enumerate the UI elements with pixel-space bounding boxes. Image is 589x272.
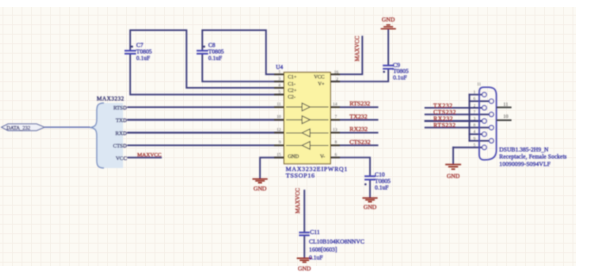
svg-text:11: 11 <box>277 101 281 106</box>
svg-text:0.1uF: 0.1uF <box>136 56 151 62</box>
svg-text:C8: C8 <box>208 43 215 49</box>
svg-text:T0805: T0805 <box>208 50 224 56</box>
svg-text:GND: GND <box>298 266 312 272</box>
svg-text:0.1uF: 0.1uF <box>393 76 408 82</box>
svg-text:V+: V+ <box>318 82 325 88</box>
svg-text:C1+: C1+ <box>288 74 297 80</box>
svg-text:RTS232: RTS232 <box>433 123 456 129</box>
svg-text:V-: V- <box>320 154 325 160</box>
svg-text:1: 1 <box>279 69 281 74</box>
svg-text:11: 11 <box>503 103 508 108</box>
svg-text:C2+: C2+ <box>288 88 297 94</box>
svg-text:CL10B104KO8NNVC: CL10B104KO8NNVC <box>309 239 364 245</box>
svg-text:C11: C11 <box>310 230 320 236</box>
svg-text:CTSD: CTSD <box>113 144 127 150</box>
svg-text:GND: GND <box>382 18 396 24</box>
svg-text:7: 7 <box>473 109 475 114</box>
svg-text:1: 1 <box>473 90 475 95</box>
svg-text:0.1uF: 0.1uF <box>208 56 223 62</box>
svg-text:11: 11 <box>477 81 481 86</box>
svg-text:TX232: TX232 <box>433 103 453 109</box>
svg-text:VCC: VCC <box>314 74 325 80</box>
svg-text:4: 4 <box>279 83 281 88</box>
svg-text:TSSOP16: TSSOP16 <box>286 173 315 180</box>
svg-text:T0805: T0805 <box>136 50 152 56</box>
svg-text:RX232: RX232 <box>433 117 453 123</box>
svg-text:C7: C7 <box>136 43 143 49</box>
svg-text:8: 8 <box>473 123 475 128</box>
svg-text:DATA_232: DATA_232 <box>7 125 31 131</box>
svg-text:9: 9 <box>473 136 475 141</box>
svg-text:TXD: TXD <box>116 118 127 124</box>
svg-text:C9: C9 <box>393 63 400 69</box>
svg-text:Receptacle, Female Sockets: Receptacle, Female Sockets <box>499 155 567 161</box>
svg-text:C10: C10 <box>375 173 385 179</box>
svg-text:0.1uF: 0.1uF <box>309 255 324 261</box>
svg-text:0.1uF: 0.1uF <box>375 185 390 191</box>
svg-text:2: 2 <box>473 103 475 108</box>
svg-text:GND: GND <box>447 174 461 180</box>
svg-text:TX232: TX232 <box>350 113 368 120</box>
svg-text:CTS232: CTS232 <box>433 110 456 116</box>
svg-text:RXD: RXD <box>115 131 126 137</box>
svg-text:T0805: T0805 <box>375 179 391 185</box>
svg-text:MAX3232: MAX3232 <box>97 96 125 102</box>
svg-text:2: 2 <box>336 77 338 82</box>
svg-text:C2-: C2- <box>288 95 296 101</box>
svg-text:6: 6 <box>473 96 475 101</box>
svg-text:RX232: RX232 <box>350 126 368 133</box>
svg-text:C1-: C1- <box>288 82 296 88</box>
svg-text:5: 5 <box>473 142 475 147</box>
svg-text:T0805: T0805 <box>393 69 409 75</box>
svg-text:1608[0603]: 1608[0603] <box>309 248 337 254</box>
svg-text:3: 3 <box>279 76 281 81</box>
svg-text:3: 3 <box>473 116 475 121</box>
svg-text:MAXVCC: MAXVCC <box>355 36 361 62</box>
svg-text:RTS232: RTS232 <box>350 101 371 108</box>
svg-text:DSUB1.385-2H9_N: DSUB1.385-2H9_N <box>499 147 549 153</box>
svg-text:GND: GND <box>254 186 268 192</box>
svg-text:10090099-S094VLF: 10090099-S094VLF <box>499 162 551 168</box>
svg-text:CTS232: CTS232 <box>350 139 371 146</box>
svg-text:10: 10 <box>503 115 509 120</box>
svg-text:RTSD: RTSD <box>113 105 127 111</box>
svg-text:MAXVCC: MAXVCC <box>137 152 161 158</box>
svg-text:VCC: VCC <box>116 156 127 162</box>
svg-text:GND: GND <box>364 205 378 211</box>
svg-text:5: 5 <box>279 89 281 94</box>
svg-text:MAXVCC: MAXVCC <box>296 188 302 214</box>
svg-text:GND: GND <box>288 154 299 160</box>
svg-text:12: 12 <box>277 127 281 132</box>
